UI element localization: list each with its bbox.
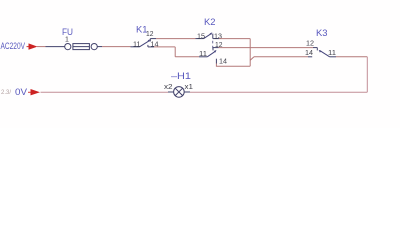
K3 pin 12 terminal tick xyxy=(316,48,318,51)
wire: 0V rail left segment (arrow to lamp) xyxy=(41,91,169,93)
H1 bulb circle xyxy=(174,87,185,98)
svg-text:AC220V: AC220V xyxy=(1,41,26,51)
H1 pin x2 lead xyxy=(168,91,174,93)
K3 pin 14 lead xyxy=(308,56,312,58)
svg-text:FU: FU xyxy=(62,27,73,37)
K2 pin 13 terminal tick xyxy=(212,34,214,39)
wire: K3 pin 11 rightward xyxy=(336,56,367,58)
svg-text:K3: K3 xyxy=(316,28,328,38)
H1 bulb cross xyxy=(175,88,182,95)
K2 lower movable arm xyxy=(207,51,215,57)
wire: K1 pin 12 to K2 pin 15 xyxy=(156,38,196,40)
svg-text:12: 12 xyxy=(146,31,154,38)
contact K2 (lower changeover 11-12-14) xyxy=(199,48,219,64)
contact K2 (upper NO contact 15-13) xyxy=(196,32,220,38)
wire: branch to K3 pin 14 xyxy=(254,56,308,58)
FU body rectangle xyxy=(73,44,90,50)
svg-text:1: 1 xyxy=(65,37,69,44)
FU body center line xyxy=(73,46,90,48)
svg-text:K2: K2 xyxy=(204,17,216,27)
contact K3 (changeover, mirrored) xyxy=(308,48,336,57)
wire: right vertical down to 0V rail xyxy=(366,57,368,92)
lamp H1 xyxy=(168,87,190,98)
svg-text:12: 12 xyxy=(306,40,314,47)
FU right terminal circle xyxy=(91,44,97,50)
K1 pin 12 lead xyxy=(150,38,156,40)
svg-text:15: 15 xyxy=(197,33,205,40)
K1 pin 14 terminal tick xyxy=(147,45,149,47)
K3 pin 11 lead xyxy=(330,56,336,58)
svg-text:x2: x2 xyxy=(164,84,173,91)
svg-text:14: 14 xyxy=(305,50,313,57)
K1 pin 12 terminal tick xyxy=(149,39,151,42)
fuse FU xyxy=(46,44,103,50)
wire: 0V rail right segment (lamp to right vertical) xyxy=(190,91,367,93)
svg-text:13: 13 xyxy=(214,33,222,40)
K2 pin 14 lead (downward) xyxy=(215,59,217,64)
svg-text:11: 11 xyxy=(199,51,207,58)
svg-text:2.3/: 2.3/ xyxy=(1,90,11,96)
K3 movable arm xyxy=(320,50,330,56)
wire: lower run to K2 pin 11 xyxy=(175,56,199,58)
FU pin 1 lead xyxy=(46,46,65,48)
H1 pin x1 lead xyxy=(184,91,190,93)
wire: 45-degree branch off vertical xyxy=(250,57,254,61)
K2 upper movable arm xyxy=(204,34,212,39)
svg-text:0V: 0V xyxy=(15,87,27,97)
FU left terminal circle xyxy=(65,44,71,50)
K2 lower arm arrowhead xyxy=(214,50,217,53)
wire: junction vertical at x=250 xyxy=(249,39,251,67)
svg-text:14: 14 xyxy=(219,58,227,65)
K1 arm arrowhead xyxy=(148,39,151,42)
K2 pin 15 lead xyxy=(196,38,204,40)
K2 pin 13 lead xyxy=(213,38,219,40)
wire: K2 pin 13 to junction vertical xyxy=(219,38,250,40)
K2 pin 11 lead xyxy=(199,56,207,58)
wire: K2 pin 14 drop bottom run xyxy=(216,64,250,67)
FU pin 2 lead xyxy=(97,46,102,48)
wire: AC220V arrow to FU xyxy=(37,46,46,48)
svg-text:11: 11 xyxy=(328,50,336,57)
wire: step-down vertical at x=175 xyxy=(174,47,176,57)
contact K1 (changeover) xyxy=(131,39,157,47)
svg-text:–H1: –H1 xyxy=(171,71,191,81)
wire: K2 pin 12 to K3 pin 12 xyxy=(219,47,314,49)
K2 mechanical link (dashed) xyxy=(212,41,214,49)
K3 arm arrowhead xyxy=(319,50,322,53)
wire: K1 pin 14 right segment xyxy=(154,46,175,48)
K1 pin 14 lead xyxy=(148,46,154,48)
K2 pin 12 terminal tick xyxy=(212,48,214,51)
node AC220V arrow xyxy=(27,43,38,49)
node 0V arrow xyxy=(28,89,40,95)
K3 pin 12 lead xyxy=(313,47,317,49)
svg-text:12: 12 xyxy=(215,42,223,49)
K2 upper arm arrowhead xyxy=(210,32,213,35)
K1 pin 11 lead xyxy=(131,46,140,48)
K2 pin 12 lead xyxy=(213,47,219,49)
wire: FU to K1 pin 11 xyxy=(102,46,131,48)
svg-text:11: 11 xyxy=(133,41,141,48)
K1 movable arm xyxy=(139,41,149,47)
svg-text:x1: x1 xyxy=(185,84,194,91)
